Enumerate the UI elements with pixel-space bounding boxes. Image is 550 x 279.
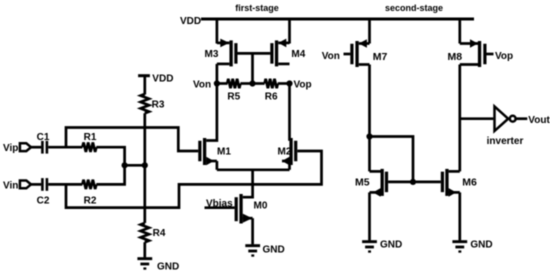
resistor R3 (141, 94, 165, 113)
svg-text:second-stage: second-stage (385, 3, 443, 13)
svg-text:R2: R2 (84, 196, 97, 207)
svg-text:GND: GND (380, 240, 402, 251)
wire M3 gate to M4 gate (237, 52, 270, 55)
svg-text:GND: GND (470, 240, 492, 251)
svg-text:M0: M0 (254, 201, 268, 212)
wire R3 down through bias node to R4 (143, 113, 146, 223)
svg-text:Vop: Vop (495, 51, 513, 62)
wire VDD terminal to R3 (143, 76, 146, 95)
wire common tail rail (217, 168, 290, 171)
wire R2 to input bias dot (96, 165, 124, 184)
resistor R2 (82, 180, 96, 207)
transistor M5 (355, 169, 388, 197)
ground (M6) (452, 240, 492, 253)
wire M0 source down to ground (251, 218, 254, 244)
wire M4 source to VDD rail (288, 19, 291, 44)
svg-text:M7: M7 (373, 51, 388, 63)
wire gate tap down to R5-R6 midpoint (251, 53, 254, 83)
wire input bias dot to divider dot (125, 164, 145, 167)
wire Vop stub to M8 gate (487, 53, 494, 56)
power VDD terminal bar (138, 74, 150, 77)
svg-text:M4: M4 (291, 49, 305, 60)
wire midpoint to R6 (253, 82, 265, 85)
svg-text:GND: GND (157, 262, 179, 273)
port Vip input terminal (20, 143, 31, 151)
svg-text:Vin: Vin (3, 181, 18, 192)
capacitor C2 (37, 178, 50, 206)
inverter U1 (487, 106, 524, 147)
resistor R4 (141, 223, 166, 242)
svg-text:Vout: Vout (528, 115, 550, 126)
wire M7 source to VDD rail (368, 19, 371, 44)
transistor M3 (205, 39, 238, 67)
wire tail rail down to M0 drain (243, 170, 253, 197)
svg-text:M2: M2 (278, 147, 292, 158)
wire VDD rail (201, 17, 474, 20)
node gate rail junction dot (410, 179, 416, 185)
transistor M4 (270, 39, 305, 67)
svg-text:Von: Von (193, 80, 211, 91)
wire C2 to R2 (48, 183, 82, 186)
svg-text:R6: R6 (265, 92, 278, 103)
resistor R1 (82, 132, 96, 152)
wire M8 source to VDD rail (458, 19, 461, 44)
svg-text:inverter: inverter (487, 136, 524, 147)
node M7 drain junction dot (366, 133, 372, 139)
wire Von stub to M7 gate (344, 53, 351, 56)
resistor R5 (227, 79, 240, 103)
wire R1 to input bias dot (96, 147, 124, 165)
svg-text:VDD: VDD (152, 74, 173, 85)
transistor M8 (448, 39, 487, 67)
svg-text:first-stage: first-stage (235, 3, 279, 13)
wire R4 down to ground (143, 242, 146, 257)
wire Vop node down to M2 drain (288, 84, 291, 141)
transistor M0 (235, 194, 268, 224)
wire Von node down to M1 drain (206, 84, 217, 141)
wire Vin port to C2 (31, 183, 41, 186)
svg-text:Vip: Vip (3, 143, 18, 154)
port Vin input terminal (20, 181, 31, 189)
svg-text:M8: M8 (448, 51, 463, 63)
svg-text:M5: M5 (355, 177, 370, 189)
node bias junction dot on divider (142, 162, 148, 168)
wire M8 drain down to M6 drain (458, 65, 461, 172)
svg-text:R3: R3 (152, 100, 165, 111)
capacitor C1 (37, 132, 50, 154)
svg-text:VDD: VDD (180, 16, 201, 27)
wire M2 source down to tail rail (288, 161, 291, 170)
resistor R6 (265, 79, 278, 103)
node input bias junction dot (122, 162, 128, 168)
wire Vip tap up and over to M1 gate (66, 128, 198, 152)
wire R5 to midpoint node (240, 82, 252, 85)
ground (bias divider) (137, 257, 179, 272)
svg-text:M6: M6 (462, 177, 477, 189)
wire M5 gate to M6 gate (388, 181, 441, 184)
ground (M0 tail) (245, 244, 284, 256)
svg-text:C1: C1 (37, 132, 50, 143)
wire Vin tap down and over to M2 gate (66, 151, 322, 208)
wire Vip port to C1 (31, 146, 41, 149)
wire inverter output to Vout (516, 117, 527, 120)
wire C1 to R1 (48, 146, 82, 149)
wire R6 to Vop node (278, 82, 290, 85)
ground (M5) (362, 240, 402, 253)
transistor M7 (350, 39, 387, 67)
transistor M2 (278, 138, 298, 165)
wire Von node to R5 (217, 82, 228, 85)
wire M3 drain down to Von node (216, 64, 219, 84)
wire M5 source down to ground (368, 192, 371, 240)
svg-text:Von: Von (322, 51, 340, 62)
wire M3 source to VDD rail (216, 19, 219, 44)
svg-text:C2: C2 (37, 196, 50, 207)
node Von junction dot (214, 80, 220, 86)
wire output branch to inverter (460, 117, 494, 120)
transistor M1 (198, 138, 231, 165)
wire M6 source down to ground (458, 192, 461, 240)
transistor M6 (441, 169, 477, 197)
wire M1 source down to tail rail (216, 161, 219, 170)
wire M7 drain node over and down to gate rail (370, 137, 414, 182)
svg-text:R4: R4 (153, 228, 166, 239)
svg-text:R1: R1 (84, 132, 97, 143)
svg-text:M3: M3 (205, 49, 219, 60)
wire Vbias stub to M0 gate (205, 206, 235, 209)
wire M7 drain down to M5 drain (368, 65, 371, 172)
svg-text:R5: R5 (227, 92, 240, 103)
svg-text:Vop: Vop (294, 80, 312, 91)
node R5-R6 midpoint junction dot (249, 80, 255, 86)
node Vop junction dot (286, 80, 292, 86)
svg-text:GND: GND (263, 245, 285, 256)
svg-text:M1: M1 (217, 147, 231, 158)
